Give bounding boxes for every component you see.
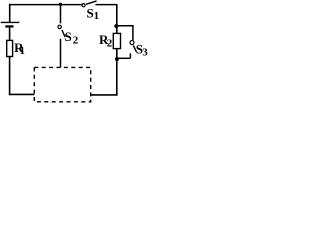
switch S3 contact circle [130,41,134,45]
wire R2 bottom to lower junction [116,49,118,60]
switch S1 contact circle [82,4,85,7]
wire below S2 down to dashed box top [60,39,62,68]
svg-text:1: 1 [94,10,100,22]
wire S3 drop [132,26,134,41]
node junction dot right top [114,24,118,28]
switch S2 contact circle [58,25,61,28]
svg-text:3: 3 [142,47,148,59]
wire top-left vertical (battery positive lead up to top rail) [9,4,11,22]
battery long plate (positive) [1,21,20,23]
wire bottom right horizontal into dashed box [90,94,117,96]
resistor R2 box [113,33,120,48]
dashed box (unknown element) [34,67,90,101]
wire S3 bottom lead [129,53,131,58]
svg-text:2: 2 [107,37,113,49]
wire junction to R2 top [116,26,118,34]
svg-text:S: S [65,29,72,44]
wire S2 drop from top rail [60,5,62,24]
battery short thick plate (negative) [5,25,13,27]
wire S3 bottom horizontal to junction [117,57,130,59]
wire top rail right segment [95,4,117,6]
node junction dot top (S2 tap) [59,3,62,6]
svg-text:2: 2 [73,34,79,46]
wire branch to S3 horizontal [117,25,134,27]
svg-text:1: 1 [20,45,26,57]
wire top rail left segment [9,4,82,6]
switch S2 blade [62,30,65,37]
resistor R1 box [7,40,13,56]
wire right vertical down to R2/S3 split [116,5,118,27]
switch S1 blade [86,1,97,4]
node junction dot right bottom [115,57,119,61]
switch S3 blade [133,45,136,51]
wire battery to R1 [9,28,11,41]
wire below R1 down [9,57,11,96]
wire bottom left horizontal into dashed box [9,93,35,95]
wire right drop to bottom [116,59,118,96]
